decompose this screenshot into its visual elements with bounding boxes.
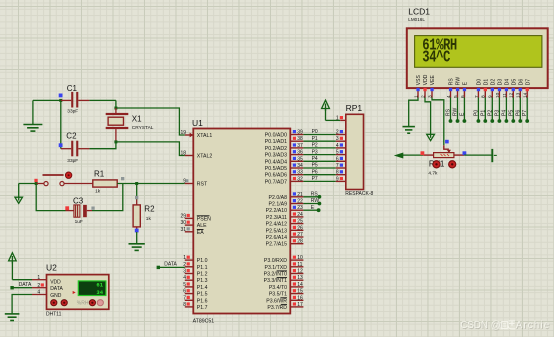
svg-text:2: 2 — [37, 283, 40, 289]
svg-text:13: 13 — [297, 275, 303, 281]
svg-text:61: 61 — [96, 281, 103, 288]
svg-text:DATA: DATA — [50, 286, 63, 292]
wire ground riser — [32, 100, 34, 124]
svg-text:11: 11 — [502, 93, 508, 98]
node DATA wire end — [10, 286, 13, 289]
node button-left junction — [35, 182, 38, 185]
wire RS net from U1 — [303, 196, 319, 198]
svg-text:P7: P7 — [522, 110, 528, 116]
watermark CSDN — [460, 320, 551, 332]
svg-text:U1: U1 — [192, 118, 203, 128]
svg-text:C3: C3 — [73, 197, 84, 206]
capacitor C2 — [61, 132, 90, 164]
svg-text:34: 34 — [297, 163, 303, 169]
wire crystal bottom to XTAL2 — [116, 142, 185, 156]
wire DATA net at U2 — [12, 287, 32, 289]
svg-text:33pF: 33pF — [67, 109, 78, 115]
svg-text:7: 7 — [336, 163, 339, 169]
svg-text:P3.4/T0: P3.4/T0 — [269, 285, 287, 291]
svg-text:P2.2/A10: P2.2/A10 — [266, 208, 287, 214]
svg-text:RS: RS — [449, 78, 455, 86]
svg-text:PSEN: PSEN — [197, 216, 211, 222]
RV1 right pin state square — [463, 151, 467, 155]
svg-text:RP1: RP1 — [346, 103, 363, 113]
svg-text:13: 13 — [516, 92, 522, 98]
wire C3 up to RST net — [92, 184, 123, 211]
svg-text:12: 12 — [509, 92, 515, 98]
U1 pin 30 ALE — [180, 220, 193, 226]
svg-text:6: 6 — [336, 156, 339, 162]
svg-text:19: 19 — [180, 130, 186, 136]
op-amp U1 AT89C51 microcontroller body — [192, 118, 290, 325]
svg-text:P2.1/A9: P2.1/A9 — [269, 202, 288, 208]
svg-text:12: 12 — [297, 269, 303, 275]
node E wire end dot — [317, 208, 321, 212]
wire power to RP1 pin 1 — [326, 119, 341, 121]
svg-text:P1.0: P1.0 — [197, 258, 208, 264]
svg-text:33pF: 33pF — [67, 158, 78, 164]
power terminal arrow (down) LCD VDD — [427, 134, 435, 140]
RP1 pin 1 state square — [340, 116, 343, 119]
svg-text:P3.2/INT0: P3.2/INT0 — [264, 272, 287, 278]
LCD1 LM016L display — [407, 6, 548, 88]
svg-text:P0.1/AD1: P0.1/AD1 — [265, 139, 287, 145]
svg-text:3: 3 — [336, 136, 339, 142]
svg-text:33: 33 — [297, 170, 303, 176]
wire RV1 to right terminal — [464, 154, 492, 156]
U1 left pin labels — [197, 133, 213, 311]
svg-text:D5: D5 — [512, 79, 518, 86]
U1 pin 9 RST — [183, 179, 193, 185]
svg-text:P2.0/A8: P2.0/A8 — [269, 195, 288, 201]
svg-text:10: 10 — [495, 92, 501, 98]
node crystal top junction — [114, 107, 117, 110]
svg-text:P5: P5 — [508, 110, 514, 116]
ground (crystal section) — [23, 125, 42, 132]
svg-text:15: 15 — [297, 289, 303, 295]
svg-text:P0.5/AD5: P0.5/AD5 — [265, 166, 287, 172]
svg-text:30: 30 — [180, 220, 186, 226]
svg-text:14: 14 — [523, 92, 529, 98]
wire LCD VEE to RV1 wiper — [432, 98, 444, 146]
svg-text:RS: RS — [446, 108, 452, 116]
R1 right pin state square — [121, 177, 124, 180]
crystal X1 — [106, 108, 154, 142]
svg-text:VDD: VDD — [50, 279, 61, 285]
svg-text:P1.3: P1.3 — [197, 278, 208, 284]
svg-text:16: 16 — [297, 295, 303, 301]
wire to C1 — [33, 99, 61, 101]
RV1 left pin state square — [421, 151, 425, 155]
ground (DHT11) — [5, 314, 20, 321]
svg-text:2: 2 — [336, 130, 339, 136]
svg-text:34^C: 34^C — [422, 49, 450, 67]
svg-text:P2.4/A12: P2.4/A12 — [266, 222, 287, 228]
wire DATA net to U1 P1.1 — [158, 266, 185, 268]
svg-text:C1: C1 — [67, 84, 78, 93]
svg-text:P3.3/INT1: P3.3/INT1 — [264, 278, 287, 284]
svg-text:4: 4 — [37, 290, 40, 296]
svg-text:P6: P6 — [312, 169, 318, 175]
wire VDD to U2 pin 1 — [12, 279, 32, 281]
svg-text:P3.7/RD: P3.7/RD — [267, 305, 287, 311]
R2 bottom pin state square — [135, 229, 139, 233]
svg-text:ALE: ALE — [197, 223, 207, 229]
svg-text:26: 26 — [297, 225, 303, 231]
svg-text:23: 23 — [297, 205, 303, 211]
svg-text:DATA: DATA — [19, 282, 32, 288]
svg-text:D3: D3 — [498, 79, 504, 86]
svg-text:P1: P1 — [312, 136, 318, 142]
svg-text:3: 3 — [183, 269, 186, 275]
U1 pin 29 PSEN — [180, 213, 193, 219]
power terminal arrow (up) RP1 pin 1 — [322, 100, 330, 120]
wire RW net from U1 — [303, 203, 319, 205]
svg-text:39: 39 — [297, 130, 303, 136]
svg-text:1k: 1k — [95, 189, 101, 195]
svg-text:P6: P6 — [515, 110, 521, 116]
svg-text:RS: RS — [311, 192, 319, 198]
svg-text:P0.7/AD7: P0.7/AD7 — [265, 179, 287, 185]
svg-text:32: 32 — [297, 176, 303, 182]
wire down to crystal top junction — [115, 100, 117, 108]
terminal arrow (left) RV1 — [394, 153, 404, 159]
capacitor C3 (electrolytic 1uF) — [66, 197, 93, 225]
wire C1 to crystal-top node — [89, 99, 116, 101]
svg-text:P0: P0 — [473, 110, 479, 116]
svg-text:P1.4: P1.4 — [197, 285, 208, 291]
svg-text:P1.5: P1.5 — [197, 292, 208, 298]
resistor pack RP1 RESPACK-8 — [336, 103, 374, 197]
svg-text:RW: RW — [456, 77, 462, 86]
svg-text:P7: P7 — [312, 176, 318, 182]
svg-text:CRYSTAL: CRYSTAL — [132, 125, 154, 131]
svg-text:21: 21 — [297, 192, 303, 198]
svg-text:D6: D6 — [519, 79, 525, 86]
U1 pin 18 XTAL2 — [180, 151, 193, 157]
node junction C1 left — [59, 99, 62, 102]
wire LCD VSS to ground — [409, 98, 418, 127]
svg-text:RW: RW — [311, 198, 320, 204]
svg-text:P0.4/AD4: P0.4/AD4 — [265, 159, 287, 165]
wire crystal top to XTAL1 — [116, 108, 185, 135]
svg-text:P2.3/A11: P2.3/A11 — [266, 215, 287, 221]
svg-text:8: 8 — [336, 170, 339, 176]
svg-text:P4: P4 — [501, 110, 507, 116]
svg-text:LM016L: LM016L — [408, 17, 425, 22]
U1 pin 31 EA — [180, 227, 193, 233]
svg-text:EA: EA — [197, 230, 204, 236]
U1 XTAL1 clock arrow — [190, 133, 194, 138]
svg-text:R2: R2 — [144, 205, 155, 214]
svg-text:DATA: DATA — [164, 262, 177, 268]
svg-text:P1.6: P1.6 — [197, 298, 208, 304]
svg-text:P3: P3 — [312, 149, 318, 155]
U1 pins 1-8 (P1.0-P1.7) stubs and numbers — [183, 255, 193, 308]
svg-text:P3.5/T1: P3.5/T1 — [269, 292, 287, 298]
power terminal arrow (up) DHT11 VDD — [9, 253, 17, 280]
svg-text:22: 22 — [297, 199, 303, 205]
svg-text:5: 5 — [336, 150, 339, 156]
svg-text:10: 10 — [297, 255, 303, 261]
svg-text:1: 1 — [183, 255, 186, 261]
push button (reset) — [36, 172, 93, 186]
button left pin state square — [34, 179, 37, 182]
sensor U2 DHT11 — [32, 263, 109, 318]
ground (below R2) — [129, 244, 145, 251]
svg-text:P0: P0 — [312, 129, 318, 135]
node RW wire end dot — [318, 202, 322, 206]
LCD1 pins 4-14 dangling wires with net labels — [446, 98, 530, 123]
svg-text:P4: P4 — [312, 156, 318, 162]
terminal (bar) RV1 right — [492, 149, 497, 162]
svg-text:D4: D4 — [505, 79, 511, 86]
node DATA wire end (U1 side) — [157, 266, 160, 269]
C3 right pin state square — [91, 207, 94, 210]
svg-text:GND: GND — [50, 293, 62, 299]
svg-text:17: 17 — [297, 302, 303, 308]
svg-text:U2: U2 — [46, 263, 57, 273]
svg-text:P2.7/A15: P2.7/A15 — [266, 242, 287, 248]
wire button junction down to C3 — [36, 184, 65, 211]
svg-text:4: 4 — [336, 143, 339, 149]
svg-text:P3.6/WR: P3.6/WR — [266, 298, 287, 304]
wire junction down to R2 — [136, 184, 138, 200]
LCD1 pin numbers 1-14 (rotated) and state squares and stubs — [413, 88, 528, 98]
node RST junction — [135, 182, 138, 185]
svg-text:P3: P3 — [494, 110, 500, 116]
wire left terminal to RV1 — [403, 154, 423, 156]
wire U2 GND to ground — [12, 295, 32, 314]
svg-text:D1: D1 — [484, 79, 490, 86]
C2 left pin state square — [59, 143, 63, 147]
svg-text:31: 31 — [180, 227, 186, 233]
svg-text:P1.2: P1.2 — [197, 272, 208, 278]
wire C1 junction down to C2 — [60, 100, 62, 148]
svg-text:36: 36 — [297, 150, 303, 156]
svg-text:P0.6/AD6: P0.6/AD6 — [265, 173, 287, 179]
svg-text:P3.1/TXD: P3.1/TXD — [265, 265, 288, 271]
C1 left pin state square — [59, 94, 63, 98]
power terminal arrow (down) reset rail — [15, 184, 23, 204]
svg-text:RW: RW — [453, 107, 459, 116]
svg-text:RESPACK-8: RESPACK-8 — [345, 191, 373, 197]
wire crystal bottom down to C2 row — [89, 142, 116, 149]
potentiometer RV1 4.7k — [423, 145, 464, 176]
C3 left pin state square — [65, 206, 69, 210]
svg-text:29: 29 — [180, 213, 186, 219]
svg-text:5: 5 — [183, 282, 186, 288]
wire R2 to ground — [136, 232, 138, 244]
svg-text:RST: RST — [197, 182, 208, 188]
svg-text:1: 1 — [37, 275, 40, 281]
wire R1 to RST pin — [117, 183, 185, 185]
capacitor C1 — [61, 84, 90, 115]
svg-text:C2: C2 — [66, 132, 77, 141]
svg-text:P0.2/AD2: P0.2/AD2 — [265, 146, 287, 152]
U1 right pin labels — [264, 133, 288, 311]
U1 pin 9 state square — [185, 179, 188, 182]
svg-text:11: 11 — [297, 262, 302, 268]
RP1 pins 2-9 stubs, numbers, state squares — [336, 130, 346, 183]
svg-text:25: 25 — [297, 219, 303, 225]
svg-text:XTAL1: XTAL1 — [197, 133, 213, 139]
svg-text:D2: D2 — [491, 79, 497, 86]
svg-text:8: 8 — [183, 302, 186, 308]
svg-text:P1.1: P1.1 — [197, 265, 208, 271]
svg-text:28: 28 — [297, 239, 303, 245]
svg-text:D7: D7 — [525, 79, 531, 86]
svg-text:9: 9 — [336, 176, 339, 182]
svg-text:24: 24 — [297, 212, 303, 218]
svg-text:P5: P5 — [312, 163, 318, 169]
svg-text:P3.0/RXD: P3.0/RXD — [264, 258, 287, 264]
svg-text:1: 1 — [336, 115, 339, 121]
svg-text:R1: R1 — [94, 170, 105, 179]
svg-text:CSDN @: CSDN @ — [460, 320, 500, 331]
svg-text:P2.6/A14: P2.6/A14 — [266, 235, 287, 241]
svg-text:Archie: Archie — [516, 320, 551, 331]
svg-text:VEE: VEE — [430, 75, 436, 86]
svg-text:VDD: VDD — [423, 74, 429, 85]
svg-text:34: 34 — [96, 289, 103, 296]
ground (LCD VSS) — [403, 127, 415, 134]
svg-text:1uF: 1uF — [75, 219, 83, 225]
svg-text:P2: P2 — [312, 143, 318, 149]
RV1 wiper state square — [445, 140, 449, 144]
svg-text:P2.5/A13: P2.5/A13 — [266, 228, 287, 234]
svg-text:1k: 1k — [146, 216, 152, 222]
svg-text:6: 6 — [183, 289, 186, 295]
svg-text:P1.7: P1.7 — [197, 305, 208, 311]
svg-text:XTAL2: XTAL2 — [197, 154, 213, 160]
svg-text:P1: P1 — [480, 110, 486, 116]
node RS wire end dot — [318, 195, 322, 199]
svg-text:37: 37 — [297, 143, 303, 149]
U1 pins 10-17 (P3) stubs, numbers, state squares — [290, 255, 303, 308]
U1 pin 19 XTAL1 — [180, 130, 193, 136]
svg-text:7: 7 — [183, 295, 186, 301]
svg-text:P2: P2 — [487, 110, 493, 116]
wire power arrow to button junction — [19, 183, 37, 185]
RV1 marker circles — [433, 161, 456, 168]
svg-text:P0.0/AD0: P0.0/AD0 — [265, 133, 287, 139]
LCD1 pin labels (rotated) — [416, 74, 531, 85]
svg-text:38: 38 — [297, 136, 303, 142]
wire E net from U1 — [303, 209, 318, 211]
U1 pins 21-28 (P2) stubs, numbers, state squares — [290, 192, 303, 245]
resistor R1 — [93, 170, 117, 195]
svg-text:LCD1: LCD1 — [408, 6, 430, 16]
svg-text:P0.3/AD3: P0.3/AD3 — [265, 153, 287, 159]
svg-text:DHT11: DHT11 — [46, 312, 62, 318]
wire LCD VDD to power arrow — [425, 98, 431, 135]
svg-text:X1: X1 — [132, 114, 142, 123]
svg-text:2: 2 — [183, 262, 186, 268]
wire P0 bus U1 to RP1 (8 wires with net labels P0-P7) — [303, 129, 335, 182]
svg-text:14: 14 — [297, 282, 303, 288]
R2 top pin state square — [135, 196, 138, 199]
svg-text:4.7k: 4.7k — [428, 170, 438, 176]
svg-text:VSS: VSS — [416, 75, 422, 86]
svg-text:4: 4 — [183, 275, 186, 281]
svg-text:D0: D0 — [477, 79, 483, 86]
svg-text:AT89C51: AT89C51 — [193, 319, 215, 325]
node crystal bottom junction — [114, 140, 117, 143]
svg-text:27: 27 — [297, 232, 303, 238]
resistor R2 — [133, 200, 155, 233]
svg-text:35: 35 — [297, 156, 303, 162]
svg-text:%RH: %RH — [77, 300, 89, 306]
svg-text:18: 18 — [180, 151, 186, 157]
U1 pins 39-32 (P0 bus) stubs, numbers, state squares — [290, 130, 303, 183]
